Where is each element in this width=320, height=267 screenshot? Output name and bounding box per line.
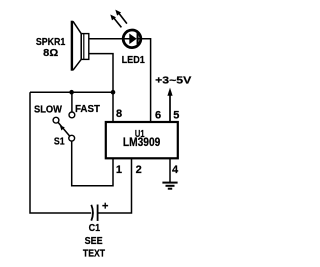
svg-text:8: 8 xyxy=(116,108,122,120)
switch S1 lever arrowhead xyxy=(60,126,65,131)
switch S1 lever xyxy=(58,123,69,137)
svg-text:2: 2 xyxy=(136,164,142,176)
junction at FAST contact stub xyxy=(69,90,74,95)
wire speaker bottom terminal to pin 8 xyxy=(89,54,113,122)
svg-text:8Ω: 8Ω xyxy=(43,47,58,59)
light emission arrow (upper right) xyxy=(115,10,127,24)
svg-text:+: + xyxy=(102,201,108,213)
svg-text:+3~5V: +3~5V xyxy=(155,74,191,86)
svg-text:C1: C1 xyxy=(89,222,101,234)
wire switch top rail xyxy=(30,91,113,93)
svg-text:S1: S1 xyxy=(54,136,65,148)
wire FAST contact stub xyxy=(71,92,73,112)
svg-text:TEXT: TEXT xyxy=(83,248,106,260)
wire LED cathode to pin 6 xyxy=(137,39,151,122)
wire pin 4 to ground xyxy=(169,159,171,183)
junction on pin 8 line xyxy=(111,90,116,95)
speaker SPKR1 xyxy=(71,21,89,71)
wire switch pole to pin 1 xyxy=(72,141,113,186)
svg-text:5: 5 xyxy=(173,109,179,121)
capacitor C1 xyxy=(91,205,97,221)
svg-text:SLOW: SLOW xyxy=(34,103,62,115)
ground xyxy=(162,183,177,189)
light emission arrow (lower left) xyxy=(110,15,121,28)
LED LED1 xyxy=(123,30,141,48)
op-amp/IC U1 LM3909 xyxy=(106,122,178,158)
wire speaker top terminal to LED anode xyxy=(89,38,130,40)
svg-text:4: 4 xyxy=(172,164,179,176)
svg-text:6: 6 xyxy=(155,109,161,121)
switch S1 FAST contact xyxy=(69,112,75,118)
svg-text:LM3909: LM3909 xyxy=(123,137,160,149)
wire pin 5 supply with arrowhead xyxy=(167,88,172,122)
svg-text:FAST: FAST xyxy=(75,103,101,115)
svg-text:SEE: SEE xyxy=(85,235,103,247)
wire capacitor to pin 2 xyxy=(98,159,132,214)
svg-text:1: 1 xyxy=(116,164,122,176)
svg-text:LED1: LED1 xyxy=(122,54,145,66)
wire left branch to capacitor xyxy=(30,92,91,213)
switch S1 SLOW contact xyxy=(53,117,59,123)
switch S1 pole xyxy=(69,135,75,141)
